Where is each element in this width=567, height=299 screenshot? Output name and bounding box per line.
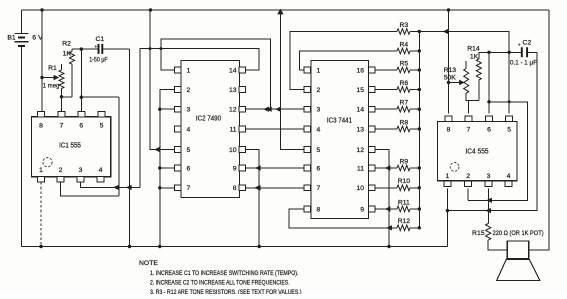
svg-text:6: 6 [187,165,191,172]
svg-text:0.1 - 1 μF: 0.1 - 1 μF [510,60,537,67]
node R1/R2/pin7 junction [60,95,63,98]
svg-text:3: 3 [487,173,491,180]
svg-text:5: 5 [507,127,511,134]
svg-text:14: 14 [356,107,364,114]
junction mark pin2 link [486,198,492,203]
svg-text:7: 7 [60,123,64,130]
wire IC2 pin11 to IC3 pin4 [245,128,303,130]
svg-text:12: 12 [356,147,364,154]
wire ground bottom rail [22,246,448,248]
wire C2 right to ground at pin1 [447,52,537,210]
wire C1 right to ground [129,49,131,246]
svg-text:5: 5 [187,147,191,154]
svg-text:11: 11 [229,126,236,133]
node R6 bus [418,88,421,91]
svg-text:13: 13 [229,87,237,94]
wire IC2 pin8 to IC3 pin7 [245,187,303,189]
svg-text:R8: R8 [399,119,408,126]
wire IC4 pin8 to V+ rail [448,10,450,114]
svg-text:R9: R9 [399,158,408,165]
wire IC4 pin1 to ground [446,188,448,246]
svg-text:7: 7 [467,127,471,134]
wire IC1 pin8 to V+ rail [41,10,43,111]
svg-text:6: 6 [487,127,491,134]
svg-text:4: 4 [187,126,191,133]
resistor R12 [397,225,410,231]
wire IC1 pin3 to IC2 pin14 [140,49,259,188]
svg-text:2: 2 [187,87,191,94]
svg-text:2: 2 [59,167,63,174]
svg-text:1 meg: 1 meg [43,82,60,89]
capacitor C1 1-50uF [99,44,103,54]
node R12 bus [418,226,421,229]
svg-text:1K: 1K [470,54,479,61]
node IC4 pin8 rail [447,8,450,11]
resistor R8 [374,128,397,130]
svg-text:11: 11 [357,165,364,172]
svg-text:12: 12 [229,107,237,114]
node IC1 pin1 ground [39,245,42,248]
junction marks row3 [263,107,269,112]
svg-text:1: 1 [446,173,450,180]
svg-text:7: 7 [317,185,321,192]
svg-text:B1: B1 [7,34,16,41]
node timing pin6 branch [487,51,490,54]
svg-text:15: 15 [356,87,364,94]
resistor R11 [374,208,397,210]
svg-text:1. INCREASE C1 TO INCREASE SWI: 1. INCREASE C1 TO INCREASE SWITCHING RAT… [150,270,299,277]
svg-text:2: 2 [317,87,321,94]
svg-text:+: + [518,42,521,48]
svg-text:1: 1 [317,67,321,74]
resistor R5 [374,69,397,71]
wire IC3 pin12 to ground [374,150,389,247]
junction pin10 gnd marks [255,165,261,170]
resistor R4 [397,48,410,54]
wire IC3 pin8 loop to R12 [289,209,397,228]
resistor R6 [374,89,397,91]
resistor R10 [374,187,397,189]
wire IC2 pin1 loop from pin12 [161,39,270,109]
wire tone bus to IC4 node [419,32,509,53]
svg-text:5: 5 [317,147,321,154]
svg-text:13: 13 [356,126,364,133]
svg-text:9: 9 [360,206,364,213]
svg-text:50K: 50K [444,74,457,81]
svg-text:6: 6 [79,123,83,130]
svg-text:7: 7 [187,185,191,192]
junction mark C2 gnd link [485,208,491,213]
junction mark row7 [254,185,260,190]
svg-text:9: 9 [233,165,237,172]
node IC3 Vcc rail [277,9,283,15]
node R1 wiper junction [40,76,43,79]
wire IC3 pin5 Vcc [280,10,303,150]
svg-text:IC2 7490: IC2 7490 [196,115,221,123]
svg-text:4: 4 [99,167,103,174]
svg-text:R1: R1 [48,65,57,72]
svg-text:R14: R14 [467,45,480,52]
node V+ at battery rail [40,8,43,11]
junction mark pin5 wire [154,147,160,152]
node IC2 Vcc rail [149,8,152,11]
svg-text:R15: R15 [472,230,485,237]
node resets pin6 [158,166,161,169]
svg-text:NOTE: NOTE [139,260,158,267]
resistor R2 1K [62,49,73,97]
node resets pin3 [158,108,161,111]
svg-text:2. INCREASE C2 TO INCREASE ALL: 2. INCREASE C2 TO INCREASE ALL TONE FREQ… [150,280,290,287]
svg-text:8: 8 [39,123,43,130]
node R5 bus [418,68,421,71]
svg-text:1: 1 [187,67,191,74]
svg-text:R7: R7 [399,100,408,107]
svg-text:IC3 7441: IC3 7441 [327,116,352,124]
svg-text:R5: R5 [399,60,408,67]
svg-text:16: 16 [356,67,364,74]
wire IC1 pin3 run [81,182,141,187]
battery B1 6V [21,10,23,33]
junction IC2 pin12 loop [266,107,272,112]
op IC3 7441 body [311,61,369,219]
resistor R3 [397,29,410,35]
op IC4 555 body [438,122,518,181]
svg-text:IC4 555: IC4 555 [465,148,488,156]
resistor R14 1K [476,59,481,80]
node pin5 crossing [508,100,511,103]
svg-text:1K: 1K [63,50,72,57]
wire IC2 pin9 to IC3 pin6 [245,167,303,169]
svg-text:+: + [94,44,97,50]
node C1 ground [128,245,131,248]
wire pin6 to pin2 link [468,102,527,201]
svg-text:R2: R2 [62,40,71,47]
resistor R9 [374,167,397,169]
node R7 bus [418,108,421,111]
wire R2 top to C1 [72,48,98,50]
node R13 wiper junction [447,81,450,84]
junction marks on pin3 run [113,185,119,190]
resistor R7 [374,108,397,110]
wire IC3 pin1 loop to R4 [300,51,398,70]
node R8 bus [418,127,421,130]
svg-text:1: 1 [39,167,43,174]
node R4 bus [418,49,421,52]
svg-text:R3: R3 [399,22,408,29]
svg-text:R12: R12 [398,218,411,225]
potentiometer R13 50K [449,82,462,84]
svg-text:10: 10 [356,185,364,192]
svg-text:R6: R6 [399,80,408,87]
svg-text:5: 5 [100,123,104,130]
wire IC1 pin2 run [61,182,120,196]
wire IC2 pin10 to ground [245,150,259,247]
svg-text:IC1 555: IC1 555 [59,142,81,150]
node R10 bus [418,186,421,189]
wire right rail to speaker [529,10,549,250]
wire IC4 pin3 output [488,188,490,223]
node R3 bus [418,30,421,33]
svg-text:8: 8 [317,206,321,213]
capacitor C2 0.1-1uF [522,47,527,57]
wire pin6 to pin2 link [81,97,119,196]
resistor R15 220 [486,224,491,241]
junction mark V+ crossing [443,29,449,34]
op IC1 555 body [32,117,111,177]
wire tone resistor bus [418,32,420,228]
svg-text:R4: R4 [399,41,408,48]
node R11 bus [418,207,421,210]
wire IC2 pin5 Vcc [150,10,175,150]
node R9 bus [418,166,421,169]
potentiometer R1 1 meg [42,77,56,79]
svg-text:8: 8 [447,127,451,134]
wire V+ top rail [22,9,550,11]
svg-text:3: 3 [79,167,83,174]
node pin6 link branch [487,100,490,103]
wire IC4 pin5 vertical [508,52,510,113]
wire IC2 pins2-3 reset to ground [160,90,175,247]
svg-text:4: 4 [507,173,511,180]
svg-text:2: 2 [466,173,470,180]
svg-text:14: 14 [229,67,237,74]
wire IC3 pin2 loop to R3 [290,32,397,90]
wire IC1 pin1 to ground [40,182,42,246]
svg-text:C1: C1 [95,36,104,43]
junction pin12 gnd marks [385,165,391,170]
speaker [507,241,529,259]
svg-text:3. R3 - R12 ARE TONE RESISTORS: 3. R3 - R12 ARE TONE RESISTORS. (SEE TEX… [150,289,302,294]
op IC2 7490 body [181,61,240,198]
junction crossing marks on pin3-pin14 wire [149,47,152,50]
svg-text:R13: R13 [444,67,457,74]
svg-text:10: 10 [229,147,237,154]
svg-text:R10: R10 [398,178,411,185]
junction mark pin8 loop [386,225,392,230]
svg-text:6: 6 [317,165,321,172]
node IC1 pin6 branch [80,96,83,99]
svg-text:8: 8 [233,185,237,192]
svg-text:C2: C2 [523,39,532,46]
svg-text:4: 4 [317,126,321,133]
svg-text:3: 3 [317,107,321,114]
node resets pin7 [158,186,161,189]
svg-text:220 Ω (OR 1K POT): 220 Ω (OR 1K POT) [493,230,544,237]
svg-text:R11: R11 [398,199,410,206]
svg-text:3: 3 [187,107,191,114]
node C1 left / IC1 pin6 [80,47,83,50]
wire IC4 pin6 vertical [488,52,490,113]
node timing pin5 branch [508,51,511,54]
node resets ground [158,245,161,248]
svg-text:1-50 μF: 1-50 μF [89,56,108,63]
wire IC2 pin12 to IC3 pin3 [245,108,303,110]
wire IC1 pin6 vertical [80,49,82,111]
